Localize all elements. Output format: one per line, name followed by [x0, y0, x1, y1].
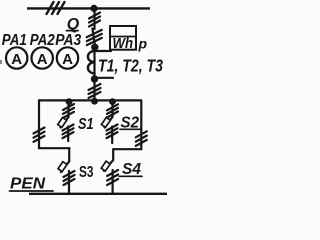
svg-text:PA2: PA2 [30, 32, 55, 49]
svg-text:PA3: PA3 [55, 32, 81, 49]
svg-text:p: p [138, 36, 148, 52]
svg-text:PEN: PEN [10, 176, 46, 193]
svg-text:Q: Q [67, 16, 80, 33]
svg-text:A: A [37, 51, 48, 68]
svg-text:S3: S3 [79, 164, 94, 181]
svg-text:A: A [11, 51, 22, 68]
svg-text:S2: S2 [121, 115, 140, 132]
svg-text:PA1: PA1 [2, 32, 27, 49]
svg-text:A: A [62, 51, 73, 68]
svg-text:T1, T2, T3: T1, T2, T3 [98, 56, 163, 76]
svg-text:S4: S4 [122, 161, 141, 178]
svg-text:S1: S1 [78, 116, 94, 133]
svg-text:Wh: Wh [113, 36, 134, 52]
